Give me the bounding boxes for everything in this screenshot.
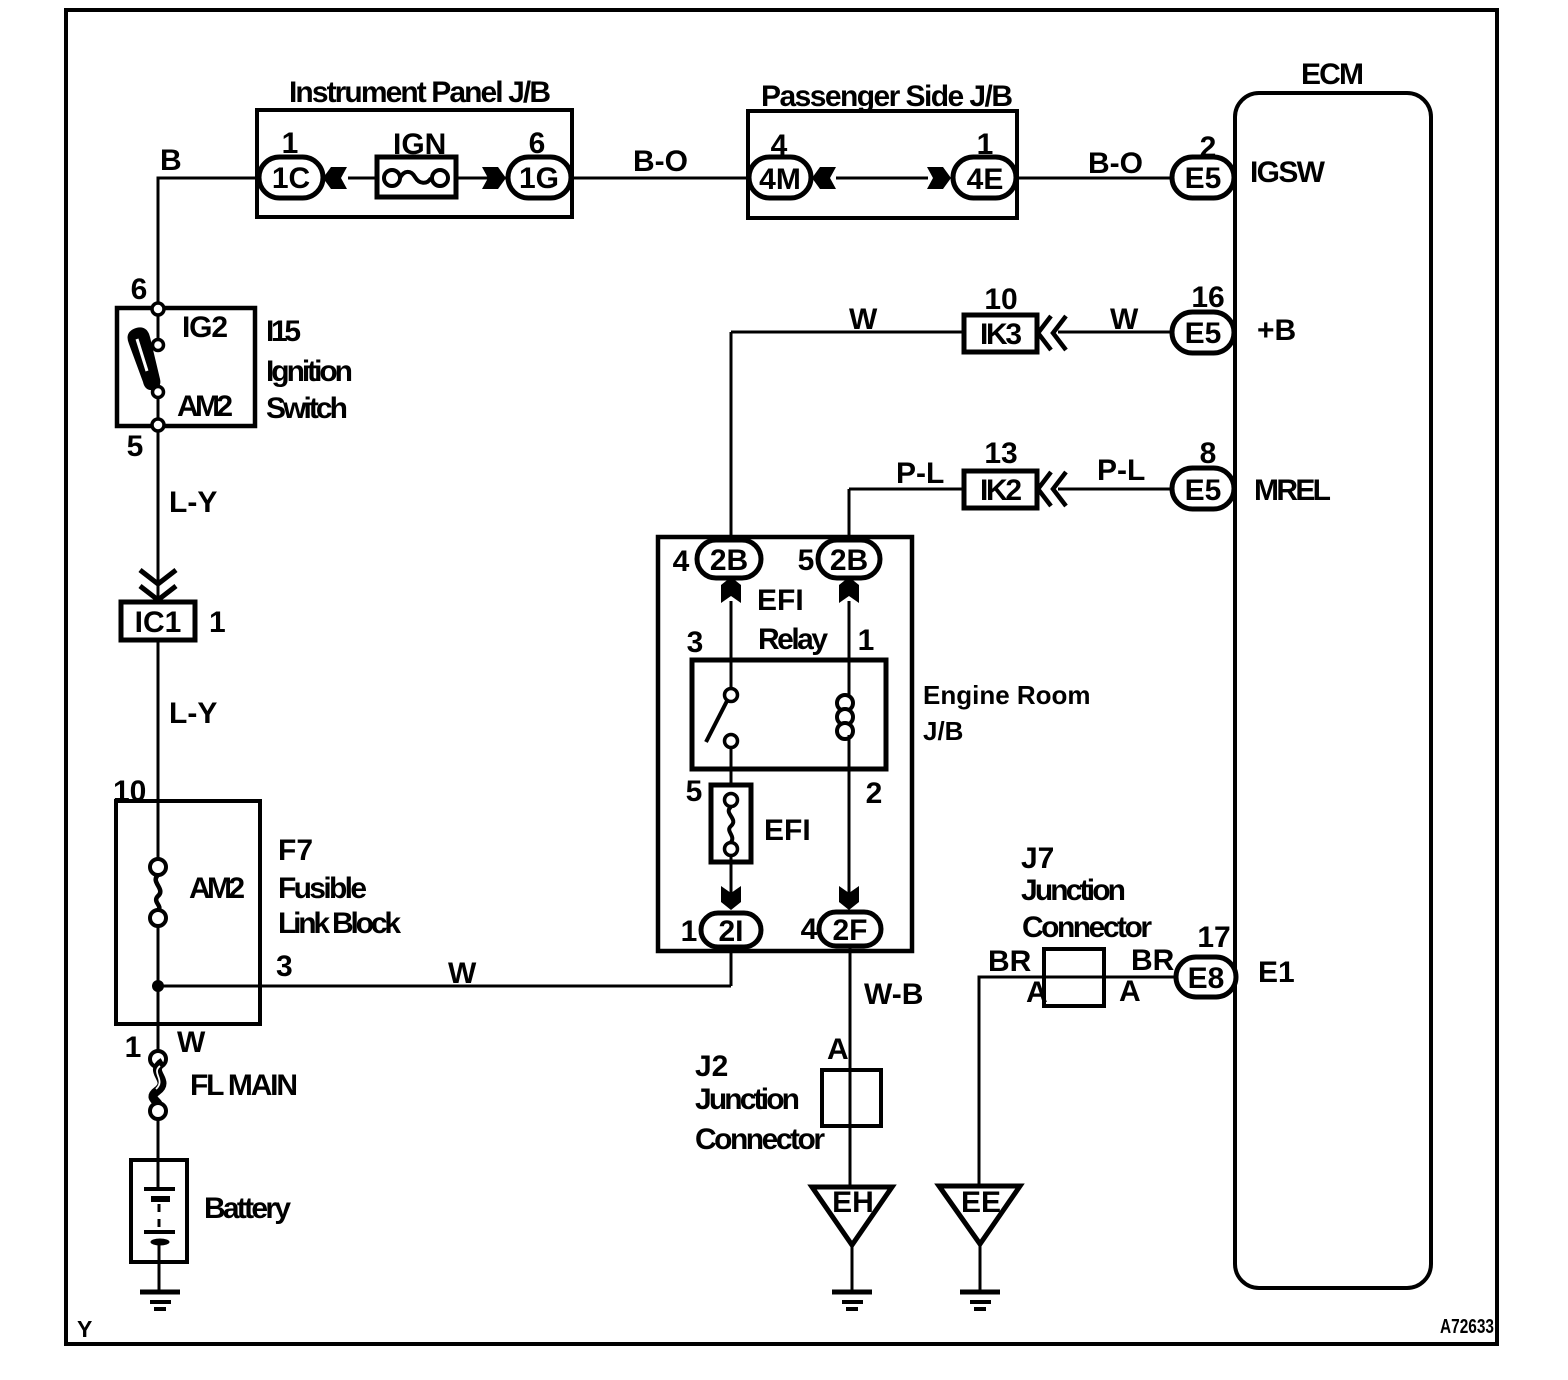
svg-text:4: 4 [771, 129, 788, 162]
svg-text:B: B [160, 144, 182, 177]
svg-text:EH: EH [832, 1186, 874, 1219]
relay coil wire upper [848, 660, 851, 700]
fuse AM2 element [150, 859, 166, 875]
svg-text:1: 1 [209, 606, 226, 639]
chevrons at IK3 [1038, 316, 1051, 350]
svg-text:EFI: EFI [757, 584, 804, 617]
connector 2B pin4 [697, 540, 761, 578]
arrow into 4M [812, 167, 836, 189]
wire battery to ground [158, 1243, 161, 1291]
wire through J7 to E8 [1044, 976, 1176, 979]
svg-text:4E: 4E [967, 163, 1004, 196]
wire EE up and right to J7 [979, 977, 1044, 1186]
svg-text:IGN: IGN [393, 128, 446, 161]
svg-text:5: 5 [127, 430, 144, 463]
J2 junction connector box [822, 1070, 881, 1126]
ground EH [832, 1290, 872, 1295]
svg-text:Fusible: Fusible [278, 872, 367, 905]
chevrons at IK2 [1038, 472, 1051, 506]
svg-text:+B: +B [1257, 314, 1296, 347]
svg-text:IC1: IC1 [135, 606, 182, 639]
svg-text:4: 4 [801, 913, 818, 946]
arrow up into 2B pin4 [721, 577, 741, 603]
switch pin top [152, 303, 164, 315]
connector 1C [259, 157, 323, 198]
ground triangle EE [939, 1186, 1020, 1244]
svg-text:Junction: Junction [1021, 874, 1126, 907]
connector 4M [749, 157, 811, 198]
wire 1G to 4M [570, 177, 750, 180]
wire top pin to IG2 [157, 315, 160, 340]
svg-text:8: 8 [1200, 437, 1217, 470]
svg-text:4M: 4M [759, 163, 801, 196]
terminal E8 [1176, 957, 1236, 997]
arrow down into 2I [721, 886, 741, 910]
Engine Room J/B box [658, 537, 912, 951]
chevron pair above IC1 [140, 570, 176, 584]
contact AM2 [153, 387, 164, 398]
svg-text:J7: J7 [1021, 842, 1054, 875]
svg-text:2F: 2F [832, 914, 867, 947]
svg-text:F7: F7 [278, 834, 313, 867]
terminal E5 IGSW [1172, 157, 1234, 198]
svg-text:Passenger Side J/B: Passenger Side J/B [761, 80, 1013, 113]
svg-text:Junction: Junction [695, 1083, 800, 1116]
svg-text:1G: 1G [519, 162, 559, 195]
svg-text:2B: 2B [710, 544, 748, 577]
wire 1C to fuse [348, 177, 377, 180]
svg-text:E5: E5 [1185, 474, 1222, 507]
junction node dot [152, 980, 164, 992]
svg-text:P-L: P-L [896, 457, 944, 490]
svg-text:L-Y: L-Y [169, 486, 217, 519]
svg-text:3: 3 [687, 626, 704, 659]
wire 4E to E5 [1016, 177, 1174, 180]
svg-text:W-B: W-B [864, 978, 923, 1011]
svg-text:2: 2 [1200, 131, 1217, 164]
svg-text:A: A [1026, 976, 1048, 1009]
wire coil to arrow [848, 769, 851, 906]
svg-text:1: 1 [977, 128, 994, 161]
wire P-L down to 2B [848, 489, 851, 541]
battery box [131, 1160, 187, 1262]
ground EE [960, 1290, 1000, 1295]
svg-text:E5: E5 [1185, 162, 1222, 195]
svg-text:Connector: Connector [695, 1123, 825, 1156]
fuse EFI box [711, 785, 751, 862]
svg-text:W: W [1110, 303, 1139, 336]
arrow into 1G [482, 167, 506, 189]
arrow down into 2F [839, 886, 859, 910]
fusible link FL MAIN [150, 1051, 166, 1067]
svg-text:6: 6 [131, 273, 148, 306]
fuse IGN element [384, 170, 400, 186]
ground triangle EH [812, 1187, 892, 1245]
wire 2B4 arrow to relay [730, 601, 733, 660]
svg-text:FL MAIN: FL MAIN [190, 1069, 298, 1102]
svg-text:6: 6 [529, 127, 546, 160]
Passenger Side J/B box [748, 111, 1017, 218]
wire IK2 to E5 [1058, 488, 1174, 491]
connector 2I [701, 913, 761, 947]
wire W horizontal to relay [158, 985, 731, 988]
ECM box [1235, 93, 1431, 1288]
connector 2F [819, 912, 881, 946]
wire B horizontal+vertical [158, 178, 259, 309]
svg-text:1: 1 [125, 1031, 142, 1064]
wire IC1 to fusible link [157, 640, 160, 859]
wire 2F down to J2 [849, 946, 852, 1187]
svg-text:J/B: J/B [923, 716, 963, 746]
switch pin bottom [152, 419, 164, 431]
svg-text:10: 10 [113, 775, 146, 808]
connector IK2 box [964, 471, 1037, 508]
wire EE to ground [979, 1244, 982, 1291]
svg-text:A72633: A72633 [1440, 1316, 1494, 1338]
switch lever [128, 327, 161, 390]
svg-text:IG2: IG2 [182, 311, 228, 344]
svg-text:W: W [849, 303, 878, 336]
svg-text:Engine Room: Engine Room [923, 680, 1091, 710]
arrow up into 2B pin5 [839, 577, 859, 603]
fuse IGN box [377, 157, 456, 197]
J7 junction connector box [1044, 949, 1104, 1006]
ground battery [140, 1290, 180, 1295]
svg-text:17: 17 [1197, 921, 1230, 954]
relay arm [706, 699, 728, 742]
svg-text:Instrument Panel J/B: Instrument Panel J/B [289, 76, 551, 109]
svg-text:Relay: Relay [758, 623, 828, 656]
relay contact wire [730, 660, 733, 689]
wire W down to 2B [730, 332, 733, 542]
svg-text:16: 16 [1191, 281, 1224, 314]
fusible link block F7 box [116, 801, 260, 1024]
svg-text:4: 4 [673, 545, 690, 578]
svg-text:Ignition: Ignition [266, 355, 353, 388]
ignition switch I15 box [117, 308, 255, 426]
svg-text:AM2: AM2 [177, 390, 233, 423]
wire IK3 to E5 [1058, 331, 1174, 334]
connector 4E [953, 157, 1016, 198]
svg-text:5: 5 [686, 775, 703, 808]
terminal E5 MREL [1172, 468, 1234, 509]
wire fuse to arrow [730, 856, 733, 906]
svg-text:1: 1 [282, 127, 299, 160]
svg-text:2B: 2B [830, 544, 868, 577]
svg-text:P-L: P-L [1097, 454, 1145, 487]
svg-text:EE: EE [961, 1186, 1001, 1219]
svg-text:13: 13 [984, 437, 1017, 470]
svg-text:1: 1 [858, 624, 875, 657]
connector 2B pin5 [818, 540, 880, 578]
wire 4M to 4E [836, 177, 928, 180]
svg-text:E8: E8 [1188, 962, 1225, 995]
connector IC1 box [121, 602, 195, 640]
arrow into 1C [323, 167, 347, 189]
svg-text:10: 10 [984, 283, 1017, 316]
connector IK3 box [964, 315, 1037, 352]
svg-text:AM2: AM2 [189, 872, 245, 905]
svg-text:B-O: B-O [633, 145, 688, 178]
svg-text:W: W [177, 1026, 206, 1059]
wire switch to IC1 [157, 431, 160, 602]
wire 2B5 arrow to relay [848, 601, 851, 660]
svg-text:J2: J2 [695, 1050, 728, 1083]
wire W row to IK3 [731, 331, 966, 334]
svg-text:2: 2 [866, 777, 883, 810]
relay contact fixed [725, 689, 738, 702]
svg-text:5: 5 [798, 544, 815, 577]
svg-text:Battery: Battery [204, 1192, 291, 1225]
wire P-L row to IK2 [849, 488, 966, 491]
svg-text:Link Block: Link Block [278, 907, 401, 940]
svg-text:2I: 2I [718, 915, 743, 948]
Instrument Panel J/B box [257, 110, 572, 217]
terminal E5 +B [1172, 312, 1234, 353]
fuse EFI element [725, 794, 738, 807]
svg-text:E1: E1 [1258, 956, 1295, 989]
wire AM2 to bottom pin [157, 397, 160, 420]
svg-text:ECM: ECM [1301, 58, 1364, 91]
svg-text:3: 3 [276, 950, 293, 983]
connector 1G [508, 157, 571, 198]
battery plates [144, 1187, 175, 1191]
relay coil [837, 695, 853, 711]
svg-text:EFI: EFI [764, 814, 811, 847]
svg-text:1C: 1C [272, 162, 310, 195]
svg-text:IK3: IK3 [980, 318, 1022, 351]
svg-text:W: W [448, 957, 477, 990]
svg-text:Connector: Connector [1022, 911, 1152, 944]
svg-text:MREL: MREL [1254, 474, 1331, 507]
svg-text:I15: I15 [266, 315, 301, 348]
svg-text:L-Y: L-Y [169, 697, 217, 730]
svg-text:IK2: IK2 [980, 474, 1022, 507]
wire FL MAIN to battery [157, 1119, 160, 1190]
svg-text:A: A [1119, 975, 1141, 1008]
wire inside fusible block [157, 926, 160, 1051]
svg-text:B-O: B-O [1088, 147, 1143, 180]
relay contact moving [725, 735, 738, 748]
wire 2I down and left [730, 947, 733, 986]
svg-text:Switch: Switch [266, 392, 348, 425]
wire fuse to 1G [456, 177, 508, 180]
relay coil wire lower [848, 735, 851, 769]
svg-text:IGSW: IGSW [1250, 156, 1326, 189]
svg-text:BR: BR [1131, 944, 1175, 977]
svg-text:E5: E5 [1185, 317, 1222, 350]
svg-text:A: A [827, 1033, 849, 1066]
relay contact wire lower [730, 748, 733, 794]
arrow into 4E [927, 167, 951, 189]
EFI relay box [692, 660, 886, 769]
svg-text:BR: BR [988, 945, 1032, 978]
wire EH to ground [851, 1245, 854, 1291]
svg-text:1: 1 [681, 915, 698, 948]
contact IG2 [153, 340, 164, 351]
svg-text:Y: Y [77, 1316, 92, 1342]
